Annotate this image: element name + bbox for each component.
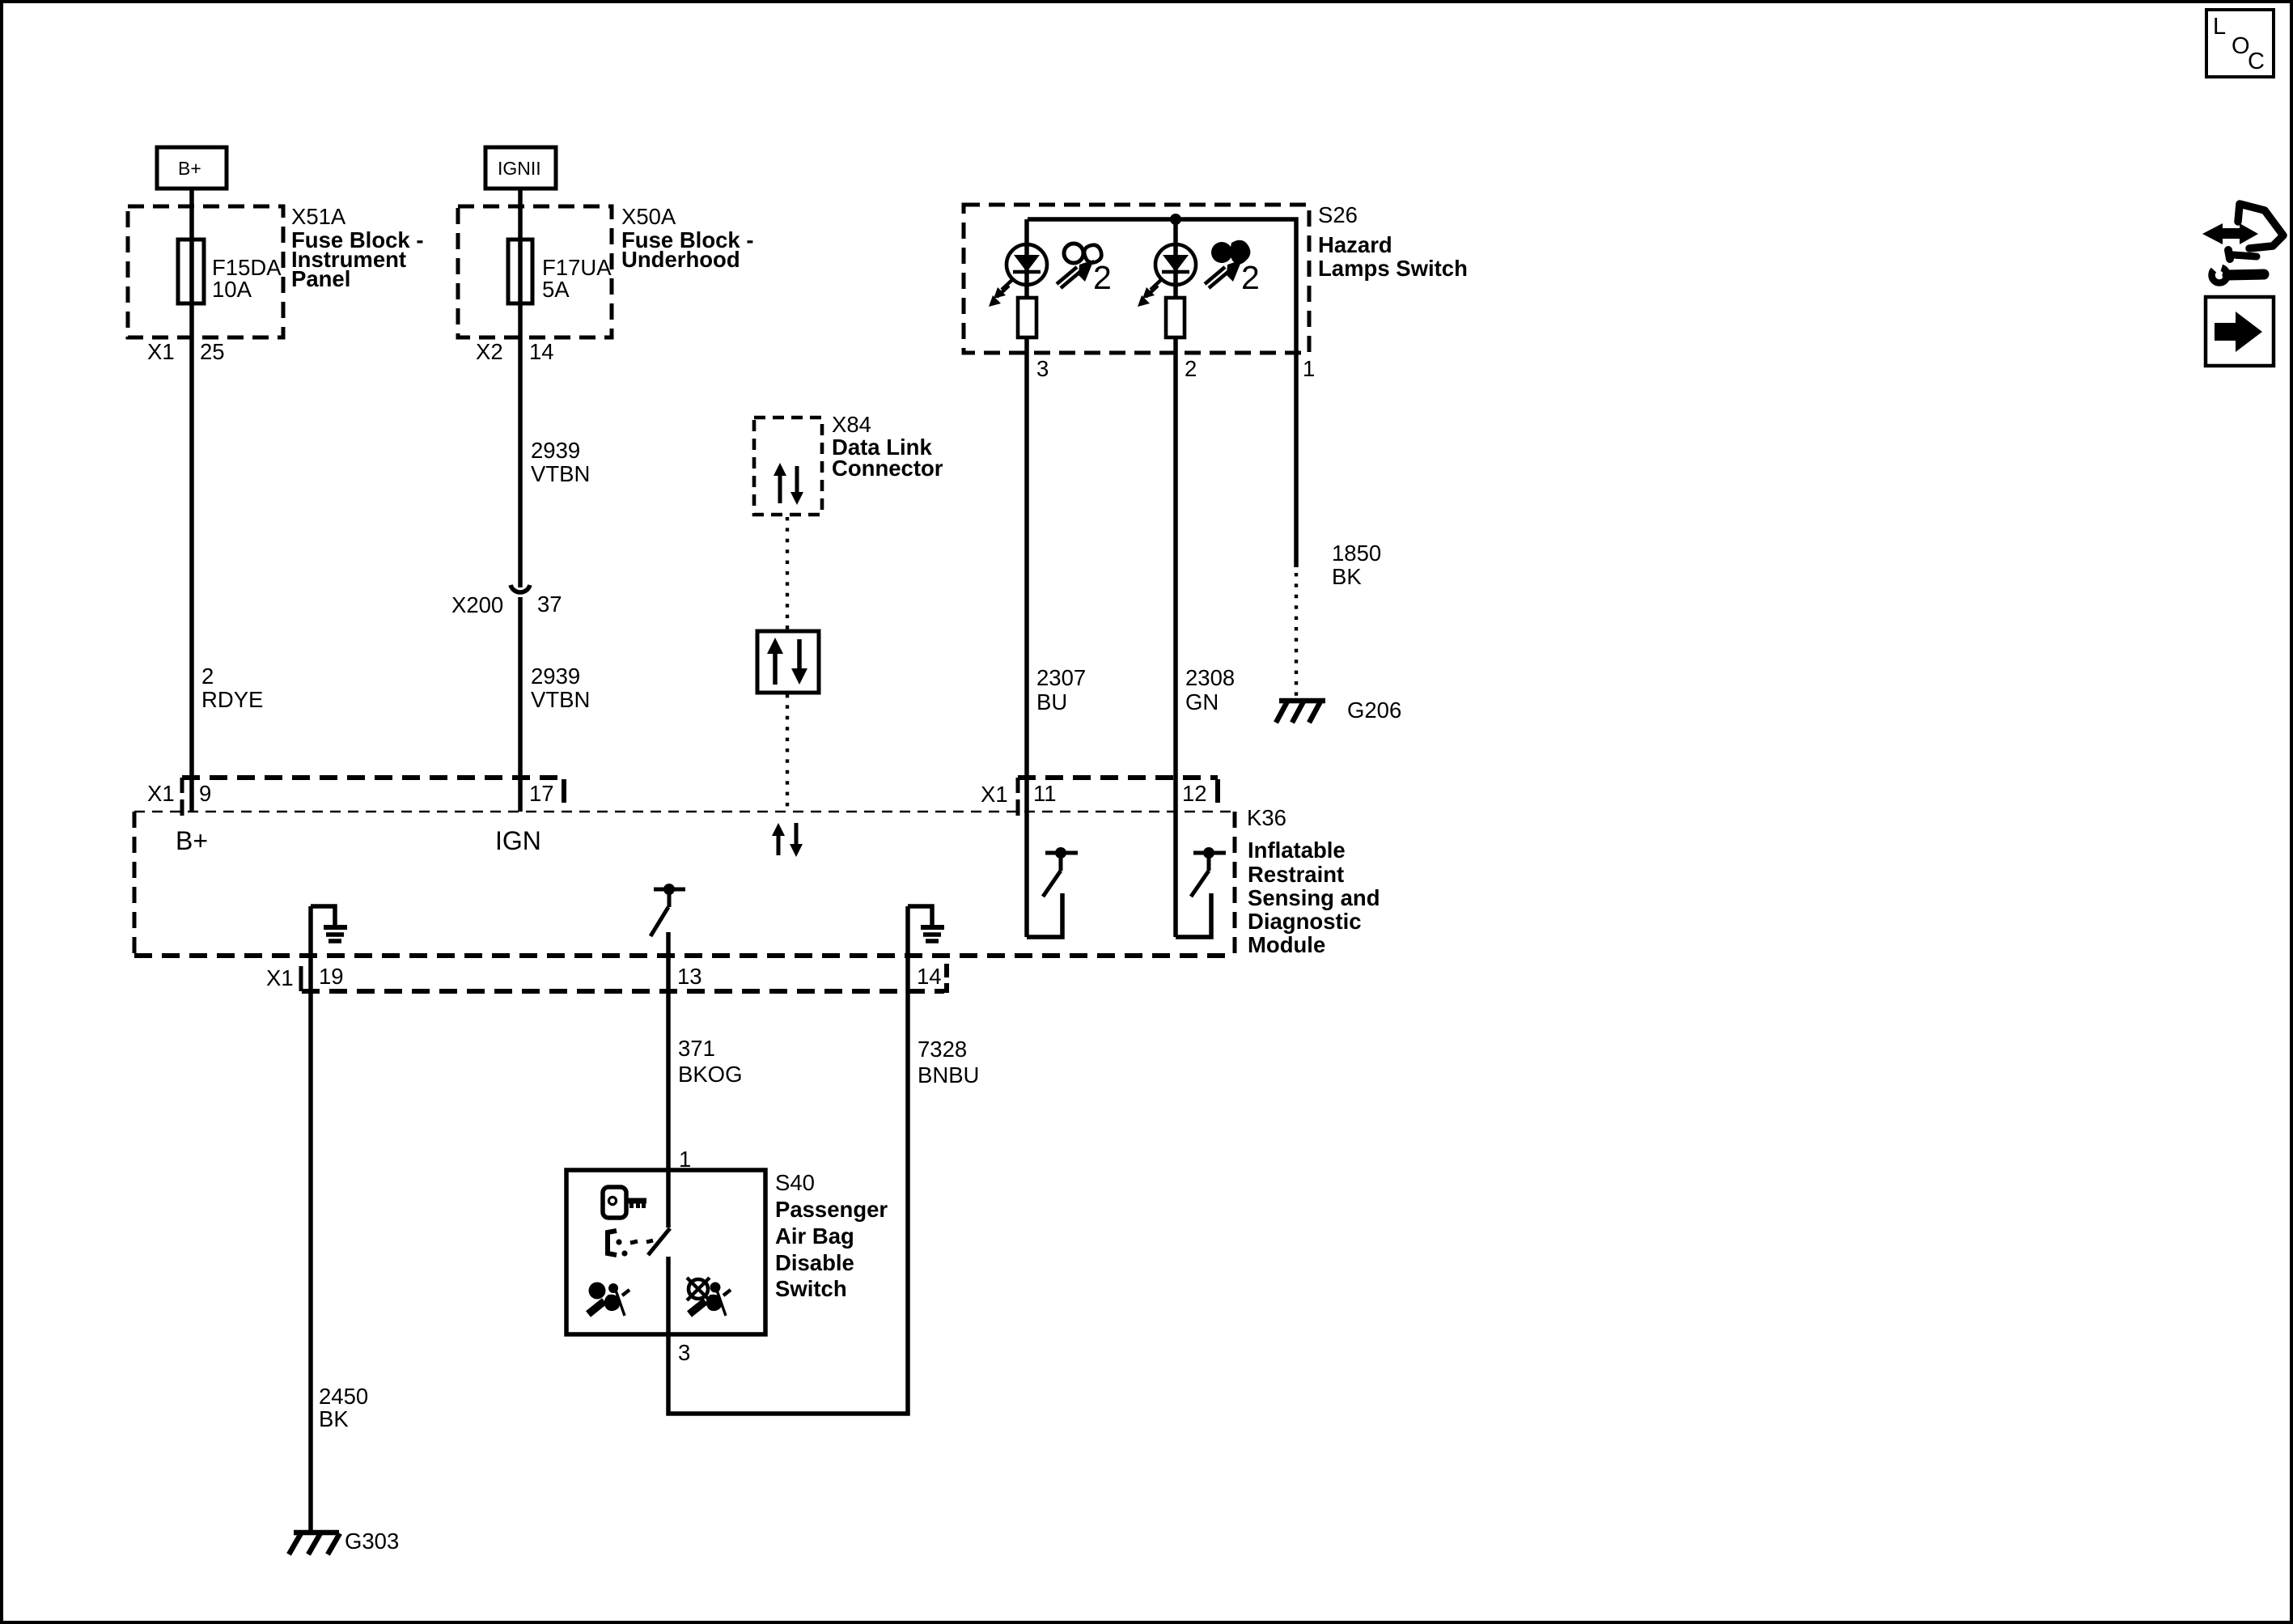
passenger air bag disable switch S40 box: [566, 1170, 765, 1334]
LED indicator lamp 1 (left): [989, 219, 1047, 307]
K36 connector X1 pin strip (pins 9,17): [147, 778, 564, 816]
wire 371 BKOG from K36 pin 13 to S40 pin 1: [666, 932, 671, 1170]
svg-text:X2: X2: [476, 339, 503, 364]
svg-text:X51A: X51A: [291, 204, 346, 229]
svg-text:17: 17: [529, 781, 554, 806]
svg-text:X84: X84: [832, 412, 871, 437]
svg-text:2450: 2450: [319, 1384, 368, 1409]
svg-text:2939: 2939: [531, 438, 580, 463]
svg-text:5A: 5A: [542, 277, 570, 302]
LED indicator lamp 2 (right): [1138, 219, 1196, 307]
label S40 Passenger Air Bag Disable Switch: [775, 1170, 888, 1301]
svg-text:2: 2: [201, 664, 214, 689]
airbag off icon inside S40: [687, 1278, 731, 1316]
svg-text:BU: BU: [1036, 689, 1067, 714]
wire 1850 BK labels: [1332, 541, 1381, 589]
wire label 2307 BU: [1036, 665, 1086, 714]
svg-text:2308: 2308: [1185, 665, 1235, 690]
svg-text:Disable: Disable: [775, 1250, 854, 1275]
svg-text:S40: S40: [775, 1170, 815, 1195]
serial data symbol box: [757, 631, 819, 693]
svg-text:19: 19: [319, 964, 344, 989]
svg-text:BKOG: BKOG: [678, 1062, 742, 1087]
wire label 2939 VTBN lower: [531, 664, 590, 712]
svg-text:C: C: [2248, 49, 2265, 74]
svg-text:2307: 2307: [1036, 665, 1086, 690]
internal ground symbol at K36 pin 19: [311, 906, 347, 941]
forward reference arrow box: [2206, 297, 2274, 366]
key rotation detent icon inside S40: [608, 1231, 653, 1257]
wire 2307 BU from S26 pin 3 to K36 pin 11: [1024, 337, 1029, 937]
serial data arrows inside X84: [774, 463, 803, 505]
key icon inside S40: [603, 1187, 646, 1218]
airbag on icon inside S40: [588, 1283, 629, 1317]
internal low-side driver switch at K36 pin 12: [1176, 847, 1226, 937]
wire label 2308 GN: [1185, 665, 1235, 714]
resistor in series with LED 2: [1166, 298, 1185, 337]
fuse block X51A outline: [128, 206, 283, 337]
wire 2308 GN from S26 pin 2 to K36 pin 12: [1173, 337, 1178, 937]
wire IGN feed upper segment: [518, 189, 523, 587]
serial data dotted wire splice to K36: [786, 694, 789, 810]
svg-text:Hazard: Hazard: [1318, 232, 1392, 257]
svg-text:X50A: X50A: [621, 204, 676, 229]
label X84 Data Link Connector: [832, 412, 943, 481]
K36 connector X1 pin strip (pins 11,12): [981, 778, 1218, 816]
svg-text:IGNII: IGNII: [498, 158, 541, 179]
hazard lamps switch S26 outline: [964, 205, 1309, 353]
svg-text:RDYE: RDYE: [201, 687, 263, 712]
svg-text:IGN: IGN: [495, 826, 541, 855]
wire B+ feed from B+ box through fuse to K36 pin 9: [189, 189, 194, 812]
fuse block X50A outline: [458, 206, 612, 337]
svg-text:9: 9: [199, 781, 211, 806]
svg-text:VTBN: VTBN: [531, 687, 590, 712]
serial data arrows inside K36: [772, 823, 803, 857]
svg-text:14: 14: [529, 339, 554, 364]
power symbol B+ box: [157, 147, 227, 189]
data link connector X84 outline: [754, 418, 822, 515]
connector X200 37: [451, 585, 562, 617]
svg-text:BNBU: BNBU: [918, 1062, 979, 1088]
svg-text:Module: Module: [1248, 932, 1325, 957]
svg-text:1850: 1850: [1332, 541, 1381, 566]
internal ground symbol at K36 pin 14: [908, 906, 944, 941]
svg-text:3: 3: [1036, 356, 1049, 381]
svg-text:3: 3: [678, 1340, 690, 1365]
wire label 7328 BNBU: [918, 1037, 979, 1088]
junction node on S26 bus: [1170, 214, 1181, 225]
LOC reference box (top right): [2206, 10, 2274, 77]
svg-text:VTBN: VTBN: [531, 461, 590, 486]
switch blade inside S40: [648, 1170, 670, 1334]
svg-text:12: 12: [1182, 781, 1207, 806]
svg-text:14: 14: [917, 964, 942, 989]
svg-text:371: 371: [678, 1036, 715, 1061]
fuse F15DA 10A: [178, 240, 282, 303]
label X51A Fuse Block - Instrument Panel: [291, 204, 424, 291]
wire S26 internal bus and pin 1 drop: [1028, 219, 1296, 567]
svg-text:Sensing and: Sensing and: [1248, 885, 1380, 910]
S26 pin labels 3 2 1: [1036, 356, 1315, 381]
wire S40 pin 3 loop to K36 pin 14 (7328 BNBU): [668, 906, 908, 1414]
serial data dotted wire X84 to splice symbol: [786, 517, 789, 630]
wire IGN feed lower segment to K36 pin 17: [518, 597, 523, 812]
svg-text:2: 2: [1185, 356, 1197, 381]
svg-text:L: L: [2213, 14, 2226, 40]
svg-text:X1: X1: [147, 339, 175, 364]
connector pin label X2 14: [476, 339, 554, 364]
svg-text:37: 37: [537, 592, 562, 617]
svg-text:Connector: Connector: [832, 456, 943, 481]
svg-text:13: 13: [677, 964, 702, 989]
svg-text:B+: B+: [176, 826, 208, 855]
svg-text:X200: X200: [451, 592, 503, 617]
svg-text:B+: B+: [178, 158, 201, 179]
label K36 Inflatable Restraint Sensing and Diagnostic Module: [1247, 805, 1380, 957]
airbag indicator icon (passenger airbag on) with subscript 2: [1057, 244, 1112, 296]
svg-text:G303: G303: [345, 1529, 399, 1554]
internal switch symbol at K36 pin 13: [651, 884, 685, 936]
svg-text:2: 2: [1241, 259, 1260, 296]
connector pin label X1 25: [147, 339, 225, 364]
svg-text:Diagnostic: Diagnostic: [1248, 909, 1362, 934]
svg-text:Restraint: Restraint: [1248, 862, 1344, 887]
svg-text:X1: X1: [266, 965, 294, 990]
power symbol IGNII box: [485, 147, 556, 189]
K36 module outline: [134, 812, 1235, 956]
label S26 Hazard Lamps Switch: [1318, 202, 1468, 281]
wire K36 pin 19 to G303 (2450 BK): [308, 906, 313, 1533]
svg-text:Lamps Switch: Lamps Switch: [1318, 256, 1468, 281]
svg-text:1: 1: [1303, 356, 1315, 381]
wire label 2939 VTBN upper: [531, 438, 590, 486]
airbag warning icon (filled) with subscript 2: [1205, 240, 1260, 296]
ground G303: [289, 1529, 399, 1554]
svg-text:Inflatable: Inflatable: [1248, 837, 1346, 863]
diagnostic/repair icon (double arrow, link, wrench): [2202, 204, 2283, 283]
resistor in series with LED 1: [1018, 298, 1036, 337]
svg-text:K36: K36: [1247, 805, 1286, 830]
svg-text:X1: X1: [147, 781, 175, 806]
svg-text:10A: 10A: [212, 277, 252, 302]
wire label 371 BKOG: [678, 1036, 742, 1087]
svg-text:25: 25: [200, 339, 225, 364]
svg-text:BK: BK: [319, 1406, 349, 1431]
label X50A Fuse Block - Underhood: [621, 204, 754, 272]
svg-text:G206: G206: [1347, 698, 1401, 723]
svg-text:2939: 2939: [531, 664, 580, 689]
wire label 2 RDYE: [201, 664, 263, 712]
ground G206: [1276, 698, 1401, 723]
fuse F17UA 5A: [508, 240, 612, 303]
K36 connector X1 bottom pin strip (pins 19,13,14): [266, 964, 947, 993]
svg-text:7328: 7328: [918, 1037, 967, 1062]
svg-text:X1: X1: [981, 782, 1008, 807]
wire label 2450 BK: [319, 1384, 368, 1431]
svg-text:Underhood: Underhood: [621, 247, 740, 272]
internal low-side driver switch at K36 pin 11: [1027, 847, 1078, 937]
svg-text:Passenger: Passenger: [775, 1197, 888, 1222]
svg-text:BK: BK: [1332, 564, 1362, 589]
svg-text:2: 2: [1093, 259, 1112, 296]
svg-text:S26: S26: [1318, 202, 1358, 227]
svg-text:Panel: Panel: [291, 266, 350, 291]
svg-text:11: 11: [1033, 781, 1057, 806]
wire 1850 BK dotted segment to G206: [1295, 573, 1298, 698]
svg-text:Air Bag: Air Bag: [775, 1223, 854, 1249]
svg-text:GN: GN: [1185, 689, 1219, 714]
svg-text:Switch: Switch: [775, 1276, 847, 1301]
